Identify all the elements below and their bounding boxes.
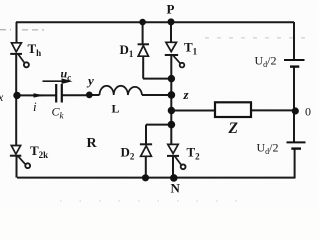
- arrow uc: [43, 80, 66, 82]
- svg-text:0: 0: [305, 105, 311, 119]
- junction D1 top rail: [139, 19, 146, 26]
- wire L to node z: [142, 94, 172, 96]
- wire z column T2 to N: [172, 156, 174, 178]
- node junction Z branch: [168, 107, 175, 114]
- node 0: [292, 107, 299, 114]
- wire left vertical mid: [15, 54, 17, 146]
- capacitor Ud/2 lower: [287, 142, 306, 148]
- impedance Z box: [215, 102, 251, 117]
- wire top rail P: [16, 21, 294, 23]
- inductor L: [100, 86, 143, 95]
- junction D2 bottom rail: [142, 174, 149, 181]
- svg-text:N: N: [171, 181, 181, 196]
- svg-text:z: z: [183, 87, 190, 102]
- wire D1 branch vertical: [142, 22, 145, 79]
- thyristor T1: [165, 42, 185, 67]
- wire main branch x to Ck: [17, 94, 56, 96]
- wire node y to L: [89, 94, 99, 96]
- node junction D2 stub: [168, 121, 176, 129]
- svg-text:y: y: [86, 73, 94, 88]
- wire Ck to node y: [63, 94, 90, 96]
- wire z column P to T1: [170, 22, 172, 43]
- svg-text:Z: Z: [228, 120, 239, 137]
- thyristor T2: [167, 144, 186, 169]
- node x: [13, 92, 20, 99]
- wire z column T1 to stub: [170, 55, 172, 144]
- node N: [170, 174, 178, 182]
- diode D1: [138, 44, 149, 56]
- current arrow i: [30, 94, 44, 96]
- wire right vertical lower: [294, 149, 296, 178]
- diode D2: [140, 144, 152, 156]
- svg-text:R: R: [87, 136, 98, 151]
- node y: [86, 92, 93, 99]
- wire D2 branch vertical: [145, 125, 147, 178]
- wire z node to Z box: [172, 110, 216, 112]
- wire left vertical upper: [16, 22, 18, 43]
- svg-text:P: P: [167, 2, 175, 17]
- wire left vertical lower: [16, 157, 18, 178]
- wire D1 stub to z column: [143, 78, 172, 80]
- svg-text:i: i: [33, 99, 37, 114]
- wire Z box to node 0: [251, 109, 295, 111]
- wire D2 stub from z column: [146, 124, 172, 126]
- wire bottom rail N: [17, 177, 296, 179]
- svg-text:L: L: [112, 102, 120, 116]
- thyristor T2k: [10, 146, 30, 169]
- node P: [168, 18, 175, 25]
- node junction D1 stub: [168, 75, 175, 82]
- wire right vertical upper: [293, 22, 295, 59]
- node z: [168, 91, 176, 99]
- capacitor Ud/2 upper: [284, 60, 305, 67]
- wire right vertical mid: [293, 67, 295, 142]
- capacitor Ck: [56, 84, 62, 103]
- thyristor Th: [10, 43, 29, 68]
